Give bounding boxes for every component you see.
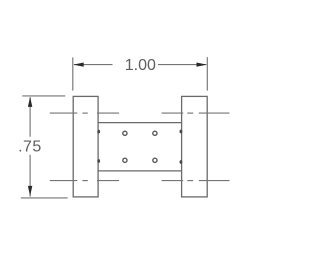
svg-text:1.00: 1.00 — [125, 57, 156, 74]
hole bottom-left — [123, 158, 127, 162]
center line upper left group — [50, 112, 119, 114]
hole top-right — [153, 131, 157, 135]
extension line top of .75 dimension — [22, 95, 65, 97]
edge pin lower-left — [97, 159, 100, 163]
extension line right of 1.00 dimension — [206, 57, 208, 90]
dimension line .75 upper segment — [29, 97, 31, 137]
body top edge — [98, 122, 182, 124]
edge pin upper-left — [97, 130, 100, 134]
arrowhead top of .75 — [28, 97, 32, 107]
hole top-left — [123, 131, 127, 135]
extension line bottom of .75 dimension — [21, 197, 68, 199]
center line lower right group — [162, 180, 230, 182]
hole bottom-right — [153, 158, 157, 162]
left flange rectangle — [73, 96, 98, 196]
arrowhead left of 1.00 — [73, 63, 83, 67]
arrowhead right of 1.00 — [197, 63, 207, 67]
right flange rectangle — [182, 96, 208, 196]
body bottom edge — [98, 170, 182, 172]
dimension line 1.00 right segment — [158, 64, 206, 66]
extension line left of 1.00 dimension — [72, 57, 74, 90]
edge pin lower-right — [180, 160, 183, 164]
center line lower left group — [50, 180, 119, 182]
svg-text:.75: .75 — [18, 138, 41, 155]
dimension line .75 lower segment — [29, 155, 31, 197]
center line upper right group — [162, 112, 230, 114]
dimension line 1.00 left segment — [74, 64, 113, 66]
edge pin upper-right — [180, 130, 183, 134]
arrowhead bottom of .75 — [28, 186, 32, 196]
